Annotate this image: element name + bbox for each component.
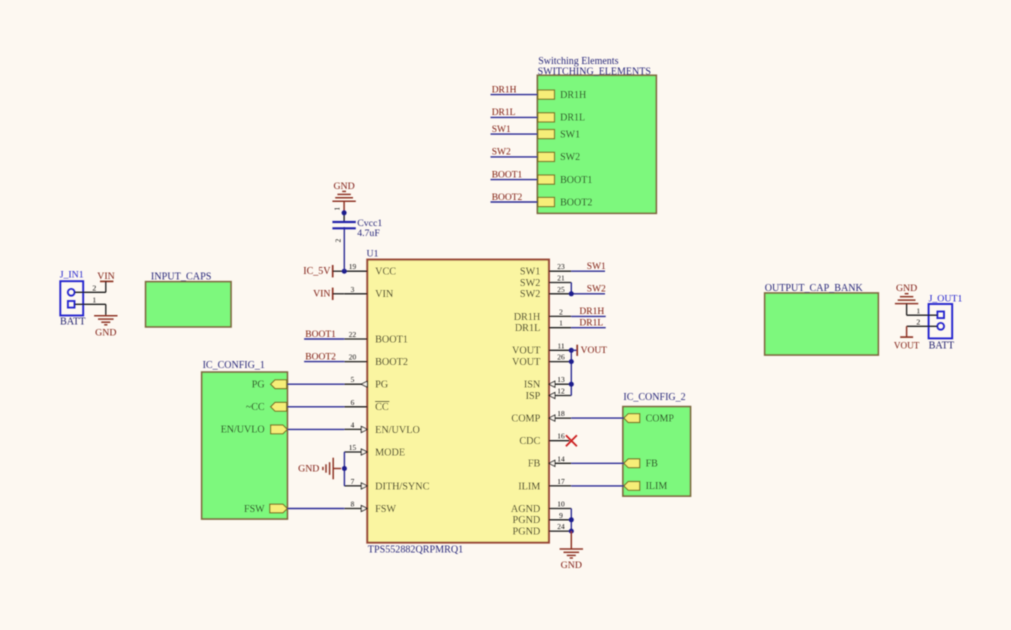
svg-text:DR1L: DR1L (515, 323, 540, 334)
net label SW1 (492, 125, 511, 135)
net label DR1H (492, 85, 517, 95)
svg-text:10: 10 (557, 500, 565, 509)
svg-text:DR1L: DR1L (560, 113, 585, 124)
no-connect X on pin 16 CDC (566, 435, 577, 446)
ground GND below U1 (560, 531, 583, 571)
J_IN1 pin 1 wire (75, 295, 106, 304)
svg-text:BOOT2: BOOT2 (375, 357, 408, 368)
svg-text:BOOT2: BOOT2 (560, 197, 592, 208)
wire AGND/PGND vertical bus pins 10-9-24 (570, 509, 572, 532)
svg-text:PG: PG (252, 380, 265, 391)
net label BOOT1 (305, 330, 336, 340)
svg-text:15: 15 (349, 443, 357, 452)
wire ILIM to IC_CONFIG_2 (571, 485, 624, 487)
svg-text:ILIM: ILIM (518, 481, 540, 492)
svg-text:SW1: SW1 (587, 262, 606, 272)
junction VOUT pin 26 (569, 359, 574, 364)
svg-text:VIN: VIN (375, 289, 394, 300)
svg-text:GND: GND (95, 327, 116, 338)
sheet pin BOOT1 of SWITCHING_ELEMENTS (538, 175, 592, 186)
wire SW2 pin21 elbow (570, 283, 572, 294)
svg-text:U1: U1 (367, 249, 379, 260)
U1 pin 7 (DITH/SYNC) left (344, 477, 429, 492)
sheet pin SW2 of SWITCHING_ELEMENTS (538, 152, 580, 163)
U1 pin 26 (VOUT) right (512, 353, 571, 368)
svg-text:DR1H: DR1H (560, 90, 586, 101)
svg-text:13: 13 (557, 375, 565, 384)
svg-text:BOOT1: BOOT1 (560, 175, 592, 186)
U1 pin 20 (BOOT2) left (344, 353, 408, 368)
svg-text:PGND: PGND (513, 527, 541, 538)
svg-text:8: 8 (351, 500, 355, 509)
svg-text:ISP: ISP (526, 391, 541, 402)
svg-text:CDC: CDC (519, 436, 540, 447)
svg-text:DR1H: DR1H (492, 85, 517, 95)
junction PGND pin 24 (569, 529, 574, 534)
svg-text:SW2: SW2 (520, 278, 540, 289)
svg-text:OUTPUT_CAP_BANK: OUTPUT_CAP_BANK (765, 283, 864, 294)
ground GND sideways at MODE/DITH (298, 458, 341, 480)
U1 pin 18 (COMP) right (511, 409, 571, 424)
sheet pin DR1H of SWITCHING_ELEMENTS (538, 90, 586, 101)
junction PGND pin 9 (569, 517, 574, 522)
svg-text:VOUT: VOUT (512, 346, 541, 357)
svg-text:5: 5 (351, 375, 355, 384)
wire net BOOT1 to sheet (491, 179, 538, 181)
sheet pin COMP of IC_CONFIG_2 (624, 413, 675, 424)
svg-text:22: 22 (349, 330, 357, 339)
wire BOOT2 net stub (304, 361, 344, 363)
U1 pin 1 (DR1L) right (515, 319, 571, 334)
svg-text:20: 20 (349, 353, 357, 362)
U1 pin 8 (FSW) left (344, 500, 396, 515)
svg-text:BOOT2: BOOT2 (305, 352, 336, 362)
svg-text:6: 6 (351, 398, 355, 407)
svg-text:14: 14 (557, 454, 565, 463)
svg-text:FSW: FSW (244, 504, 265, 515)
net label BOOT1 (492, 170, 523, 180)
wire PG to IC_CONFIG_1 (287, 383, 344, 385)
sheet pin BOOT2 of SWITCHING_ELEMENTS (538, 197, 592, 208)
svg-text:ILIM: ILIM (646, 481, 668, 492)
U1 pin 23 (SW1) right (520, 262, 571, 277)
op-amp U1 body (TPS552882QRPMRQ1 regulator) (367, 249, 549, 556)
U1 pin 22 (BOOT1) left (344, 330, 408, 345)
svg-text:GND: GND (561, 560, 582, 571)
svg-text:DR1L: DR1L (579, 319, 603, 329)
wire SW1 net stub (571, 270, 605, 272)
svg-text:4: 4 (351, 420, 355, 429)
svg-text:SW2: SW2 (492, 148, 511, 158)
hierarchical sheet OUTPUT_CAP_BANK (765, 283, 879, 355)
svg-text:FB: FB (528, 459, 541, 470)
wire Cvcc1 to pin 19 (343, 227, 345, 271)
wire BOOT1 net stub (304, 338, 344, 340)
svg-text:AGND: AGND (511, 504, 540, 515)
svg-text:SW1: SW1 (560, 129, 580, 140)
wire net SW1 to sheet (491, 133, 538, 135)
svg-text:J_IN1: J_IN1 (60, 270, 84, 281)
svg-text:VOUT: VOUT (512, 357, 541, 368)
svg-text:DR1H: DR1H (579, 307, 604, 317)
svg-text:21: 21 (557, 274, 565, 283)
svg-text:GND: GND (298, 464, 319, 475)
svg-text:DR1H: DR1H (514, 312, 541, 323)
sheet pin ILIM of IC_CONFIG_2 (624, 481, 668, 492)
U1 pin 16 (CDC) right (519, 432, 569, 447)
hierarchical sheet IC_CONFIG_1 (202, 360, 288, 519)
svg-text:FSW: FSW (375, 504, 396, 515)
net label SW2 (492, 148, 511, 158)
wire FB to IC_CONFIG_2 (571, 462, 624, 464)
U1 pin 11 (VOUT) right (512, 341, 571, 356)
U1 pin 25 (SW2) right (520, 285, 571, 300)
svg-text:12: 12 (557, 387, 565, 396)
svg-text:2: 2 (92, 283, 96, 292)
svg-text:26: 26 (557, 353, 565, 362)
net label SW2 (587, 285, 606, 295)
svg-text:25: 25 (557, 285, 565, 294)
wire SW2 net stub (571, 293, 605, 295)
wire net DR1H to sheet (491, 94, 538, 96)
U1 pin 24 (PGND) right (513, 522, 572, 537)
sheet pin ~CC of IC_CONFIG_1 (246, 402, 287, 413)
sheet pin FSW of IC_CONFIG_1 (244, 504, 287, 515)
svg-text:SW1: SW1 (520, 267, 540, 278)
hierarchical sheet IC_CONFIG_2 (623, 392, 691, 496)
power symbol IC_5V (303, 265, 344, 277)
wire to VOUT power symbol (571, 349, 577, 351)
J_OUT1 pin 1 wire (907, 306, 938, 315)
U1 pin 21 (SW2) right (520, 274, 571, 289)
svg-text:INPUT_CAPS: INPUT_CAPS (151, 271, 212, 282)
U1 pin 2 (DR1H) right (514, 307, 572, 322)
svg-text:CC: CC (375, 402, 389, 413)
U1 pin 14 (FB) right (528, 454, 571, 469)
svg-text:BOOT1: BOOT1 (305, 330, 336, 340)
svg-text:GND: GND (333, 181, 354, 192)
junction IC_5V / Cvcc1 (342, 269, 347, 274)
svg-text:J_OUT1: J_OUT1 (929, 293, 963, 304)
svg-text:BOOT2: BOOT2 (492, 193, 523, 203)
net label BOOT2 (305, 352, 336, 362)
svg-text:IC_5V: IC_5V (303, 266, 331, 277)
svg-text:SW1: SW1 (492, 125, 511, 135)
wire net DR1L to sheet (491, 116, 538, 118)
hierarchical sheet INPUT_CAPS (146, 271, 231, 327)
svg-text:1: 1 (916, 306, 920, 315)
svg-text:2: 2 (334, 238, 342, 242)
svg-text:19: 19 (349, 262, 357, 271)
net label DR1H (579, 307, 604, 317)
sheet pin DR1L of SWITCHING_ELEMENTS (538, 113, 585, 124)
svg-text:EN/UVLO: EN/UVLO (375, 425, 420, 436)
svg-text:FB: FB (646, 459, 659, 470)
svg-text:ISN: ISN (524, 380, 541, 391)
power symbol VOUT right (577, 345, 607, 356)
svg-text:23: 23 (557, 262, 565, 271)
power symbol VIN at J_IN1 (97, 271, 114, 292)
svg-text:COMP: COMP (511, 414, 540, 425)
wire VOUT vertical bus pins 11-26-13-12 (570, 350, 572, 395)
U1 pin 10 (AGND) right (511, 500, 571, 515)
wire ~CC to IC_CONFIG_1 (287, 406, 344, 408)
wire EN/UVLO to IC_CONFIG_1 (287, 428, 344, 430)
sheet pin EN/UVLO of IC_CONFIG_1 (221, 425, 288, 436)
net label DR1L (579, 319, 603, 329)
ground GND at J_OUT1 (895, 283, 918, 315)
svg-text:1: 1 (334, 207, 342, 211)
svg-text:BOOT1: BOOT1 (375, 334, 408, 345)
svg-text:IC_CONFIG_1: IC_CONFIG_1 (203, 360, 265, 371)
U1 pin 5 (PG) left (344, 375, 388, 390)
power symbol VOUT at J_OUT1 (894, 326, 920, 350)
junction VOUT pin 11 (569, 348, 574, 353)
svg-text:SW2: SW2 (587, 285, 606, 295)
svg-text:MODE: MODE (375, 447, 405, 458)
ground GND at J_IN1 (94, 304, 117, 338)
U1 pin 13 (ISN) right (524, 375, 571, 390)
ground GND above Cvcc1 (332, 181, 355, 213)
wire MODE/DITH vertical (343, 452, 345, 486)
svg-text:BOOT1: BOOT1 (492, 170, 523, 180)
wire DR1L net stub (571, 327, 605, 329)
wire COMP to IC_CONFIG_2 (571, 417, 624, 419)
U1 pin 6 (CC) left (344, 398, 389, 413)
svg-text:GND: GND (896, 283, 917, 294)
U1 pin 9 (PGND) right (513, 511, 572, 526)
svg-text:VOUT: VOUT (894, 341, 920, 351)
U1 pin 15 (MODE) left (344, 443, 405, 458)
wire net BOOT2 to sheet (491, 201, 538, 203)
hierarchical sheet SWITCHING_ELEMENTS (537, 56, 656, 213)
wire net SW2 to sheet (491, 156, 538, 158)
svg-text:18: 18 (557, 409, 565, 418)
svg-text:PG: PG (375, 380, 389, 391)
J_OUT1 pin 2 wire (907, 317, 938, 326)
svg-text:DR1L: DR1L (492, 108, 516, 118)
svg-text:BATT: BATT (60, 317, 86, 328)
U1 pin 12 (ISP) right (526, 387, 572, 402)
connector J_IN1 (60, 270, 87, 328)
svg-text:VCC: VCC (375, 267, 396, 278)
svg-text:VOUT: VOUT (581, 346, 608, 356)
J_IN1 pin 2 wire (75, 283, 106, 292)
svg-text:EN/UVLO: EN/UVLO (221, 425, 265, 436)
net label BOOT2 (492, 193, 523, 203)
junction VOUT pin 13 (569, 382, 574, 387)
svg-text:COMP: COMP (646, 413, 675, 424)
U1 pin 3 (VIN) left (344, 285, 394, 300)
svg-text:TPS552882QRPMRQ1: TPS552882QRPMRQ1 (368, 545, 463, 556)
wire DR1H net stub (571, 315, 605, 317)
U1 pin 19 (VCC) left (344, 262, 396, 277)
svg-text:2: 2 (916, 317, 920, 326)
svg-text:VIN: VIN (313, 289, 330, 300)
wire FSW to IC_CONFIG_1 (287, 508, 344, 510)
svg-text:4.7uF: 4.7uF (357, 228, 380, 239)
svg-text:11: 11 (557, 341, 564, 350)
U1 pin 4 (EN/UVLO) left (344, 420, 420, 435)
svg-text:PGND: PGND (513, 515, 541, 526)
U1 pin 17 (ILIM) right (518, 477, 571, 492)
connector J_OUT1 (929, 293, 963, 351)
svg-text:SW2: SW2 (520, 289, 540, 300)
capacitor Cvcc1 4.7uF (332, 207, 382, 243)
svg-text:BATT: BATT (929, 341, 955, 352)
power symbol VIN at pin 3 (313, 288, 344, 300)
svg-text:DITH/SYNC: DITH/SYNC (375, 481, 430, 492)
svg-text:24: 24 (557, 522, 565, 531)
svg-text:3: 3 (351, 285, 355, 294)
sheet pin FB of IC_CONFIG_2 (624, 459, 658, 470)
svg-text:1: 1 (92, 295, 96, 304)
junction MODE/DITH GND (342, 466, 347, 471)
sheet pin PG of IC_CONFIG_1 (252, 380, 287, 391)
svg-text:9: 9 (559, 511, 563, 520)
svg-text:16: 16 (557, 432, 565, 441)
svg-text:SW2: SW2 (560, 152, 580, 163)
svg-text:7: 7 (351, 477, 355, 486)
svg-text:IC_CONFIG_2: IC_CONFIG_2 (623, 392, 685, 403)
net label DR1L (492, 108, 516, 118)
svg-text:1: 1 (559, 319, 563, 328)
svg-text:SWITCHING_ELEMENTS: SWITCHING_ELEMENTS (538, 67, 651, 78)
svg-text:~CC: ~CC (246, 402, 265, 413)
net label SW1 (587, 262, 606, 272)
svg-text:17: 17 (557, 477, 565, 486)
junction SW2 (569, 291, 574, 296)
sheet pin SW1 of SWITCHING_ELEMENTS (538, 129, 580, 140)
svg-text:2: 2 (559, 307, 563, 316)
